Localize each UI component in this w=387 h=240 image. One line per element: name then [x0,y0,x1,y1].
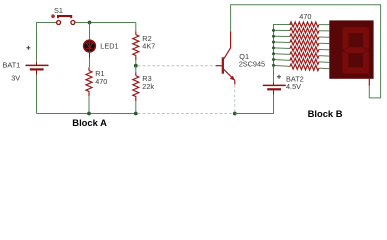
segment d [343,67,369,73]
wire row 7 right to display pin [319,61,329,64]
svg-text:2SC945: 2SC945 [239,59,265,68]
svg-text:Block A: Block A [72,117,107,128]
wire dashed bottom rail link [138,113,233,115]
wire bottom rail Block A [37,113,136,115]
battery BAT2 [263,82,286,95]
wire bottom rail Block B [235,95,274,114]
node emitter/rail junction [233,112,237,116]
svg-text:470: 470 [299,12,311,21]
wire R2 to mid node [135,60,137,66]
switch toggle dot [51,14,55,18]
node R1 bottom [87,112,91,116]
resistor array element 3 (470) [290,34,319,40]
svg-text:S1: S1 [54,6,63,15]
wire collector up and top loop to display common [231,5,381,98]
svg-text:BAT1: BAT1 [3,60,21,69]
wire resistor bus vertical [274,25,293,83]
node bus junction 8 [272,64,275,67]
wire row 1 left [274,24,291,26]
wire row 6 right to display pin [319,55,329,57]
segment c [363,51,369,73]
node bus junction 7 [272,58,275,61]
wire row 2 right to display pin [319,30,329,32]
wire row 8 left [274,64,291,67]
wire R1 to rail [88,96,90,114]
wire switch to R2 corner [75,22,136,24]
resistor R3 [133,73,139,102]
node bus junction 3 [272,35,275,38]
wire row 1 right to display pin [319,24,329,26]
node bus junction 5 [272,46,275,49]
segment a [343,27,369,33]
wire row 5 left [274,47,291,50]
switch S1 [57,15,75,25]
7-segment display bezel [329,20,373,78]
LED1 [84,40,96,53]
battery BAT1 [26,62,49,74]
resistor array element 1 (470) [290,22,319,27]
wire row 8 right to display pin [319,67,329,70]
wire row 4 left [274,41,291,43]
wire dashed emitter to rail [234,85,236,112]
resistor array element 8 (470) [290,64,319,71]
resistor array element 6 (470) [290,52,319,58]
svg-text:3V: 3V [11,74,20,83]
node R3 bottom [134,112,138,116]
7-segment digit segments [342,27,369,73]
wire corner down to R2 [135,23,137,32]
segment f [342,27,348,49]
transistor Q1 [216,32,235,85]
resistor R2 [133,32,139,61]
svg-text:4K7: 4K7 [142,42,155,51]
BAT1 plus sign [26,46,30,50]
wire row 5 right to display pin [319,48,329,50]
node bus junction 2 [272,29,275,32]
wire node down to R3 [135,66,137,73]
svg-text:22k: 22k [142,82,154,91]
svg-text:4.5V: 4.5V [286,82,301,91]
resistor array element 7 (470) [290,58,319,65]
resistor array element 5 (470) [290,46,319,52]
wire dashed mid link to Q1 base [138,65,216,67]
resistor array element 2 (470) [290,28,319,33]
wire row 6 left [274,53,291,56]
segment g [343,47,368,53]
resistor R1 [86,67,92,96]
svg-text:470: 470 [95,77,107,86]
node junction above LED [88,21,92,25]
node bus junction 4 [272,41,275,44]
node R2/R3/base junction [134,64,138,68]
node bus junction 6 [272,52,275,55]
segment b [363,27,369,49]
resistor array element 4 (470) [290,40,319,46]
wire LED to R1 [89,53,91,58]
BAT2 plus sign [277,75,281,79]
svg-text:Block B: Block B [308,108,343,119]
wire R3 to rail [135,101,137,114]
wire left rail top [37,23,57,114]
display common pin [368,79,370,86]
wire junction down to LED [89,23,91,41]
wire row 3 left [274,35,291,37]
wire row 4 right to display pin [319,42,329,44]
wire row 2 left [274,29,291,31]
svg-text:LED1: LED1 [100,42,118,51]
wire row 7 left [274,59,291,62]
segment e [342,51,348,73]
wire row 3 right to display pin [319,36,329,38]
